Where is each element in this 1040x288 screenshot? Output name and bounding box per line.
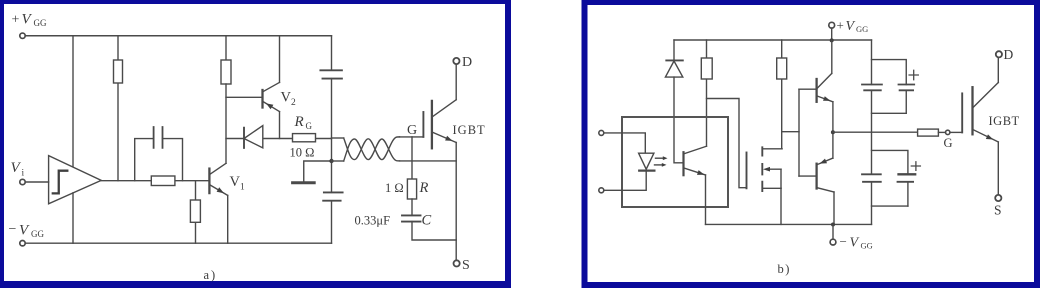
wire input top to LED anode	[604, 133, 646, 153]
resistor (+VGG to op-amp output node)	[114, 36, 123, 181]
svg-text:+: +	[837, 18, 844, 33]
svg-text:C: C	[422, 213, 432, 229]
terminal D (b)	[996, 51, 1002, 57]
svg-text:V: V	[230, 174, 241, 190]
svg-text:GG: GG	[31, 229, 44, 239]
terminal -VGG (b)	[830, 225, 836, 246]
svg-text:−: −	[9, 222, 17, 237]
wire node to twisted pair bottom lead	[332, 160, 344, 162]
wire LED cathode to input bottom	[604, 171, 646, 191]
wire G to IGBT gate	[950, 131, 962, 133]
wire drain node to push-pull bases	[782, 131, 799, 133]
junction bottom rail (b)	[831, 223, 835, 227]
svg-text:D: D	[462, 55, 472, 70]
wire top rail (a)	[25, 35, 331, 37]
wire node to twisted pair top lead	[332, 137, 344, 139]
wire IGBT collector to D	[997, 58, 999, 83]
wire lower emitter to output node	[832, 132, 834, 158]
wire C1 to C2 trunk	[331, 79, 333, 193]
wire gate RC drop	[411, 137, 413, 179]
svg-text:GG: GG	[861, 241, 873, 251]
resistor gate series (b)	[918, 129, 946, 136]
svg-text:a): a)	[204, 268, 218, 282]
svg-text:+: +	[12, 13, 20, 28]
svg-text:i: i	[22, 169, 25, 179]
op-amp step waveform symbol	[53, 171, 68, 194]
op-amp U1	[49, 156, 102, 204]
svg-text:V: V	[850, 236, 860, 251]
capacitor bank top (electrolytic pair)	[862, 85, 914, 91]
wire feedback cap right leg	[163, 139, 183, 181]
label V1	[230, 174, 246, 193]
svg-text:G: G	[944, 136, 953, 150]
junction top rail (b)	[830, 38, 834, 42]
wire top rail corner down to C1	[331, 36, 333, 71]
svg-text:V: V	[846, 19, 856, 34]
resistor (base series)	[151, 176, 175, 186]
light arrow 2	[655, 163, 667, 167]
wire op-amp positive supply drop	[72, 36, 74, 167]
wire MOSFET source to bottom rail	[780, 188, 782, 224]
transistor lower PNP (b)	[799, 158, 834, 192]
wire bottom rail (b)	[706, 223, 872, 225]
wire phototransistor emitter to bottom rail	[705, 175, 707, 224]
wire emitter to S terminal	[455, 143, 457, 261]
svg-text:−: −	[840, 234, 847, 249]
svg-text:R: R	[419, 180, 429, 196]
label +VGG (b)	[837, 18, 869, 35]
label +VGG (a)	[12, 12, 47, 29]
twisted pair wire 1	[344, 137, 400, 160]
wire push-pull bases tie	[798, 89, 800, 176]
transistor V2	[263, 82, 280, 111]
wire cap mid links	[872, 90, 908, 174]
MOSFET	[747, 147, 783, 191]
terminal +VGG (a)	[20, 33, 25, 38]
svg-text:1 Ω: 1 Ω	[385, 181, 404, 195]
plus sign top cap	[909, 70, 918, 79]
wire IGBT emitter to S	[997, 142, 999, 195]
IGBT (a)	[423, 100, 456, 149]
resistor R (1 ohm damping)	[407, 179, 416, 199]
svg-text:IGBT: IGBT	[989, 114, 1020, 128]
svg-text:V: V	[22, 12, 33, 28]
svg-text:b): b)	[778, 262, 791, 276]
terminal -VGG (a)	[20, 241, 25, 246]
label RG	[294, 114, 313, 131]
wire V2 base	[226, 96, 263, 98]
svg-text:R: R	[294, 114, 304, 130]
resistor (+VGG to V1 collector trunk)	[221, 36, 231, 84]
wire cap chain top branch	[872, 60, 907, 85]
transistor upper NPN (b)	[799, 73, 833, 101]
light arrow 1	[656, 156, 668, 160]
wire C2 to bottom rail	[331, 201, 333, 244]
svg-text:S: S	[994, 203, 1002, 218]
svg-text:G: G	[407, 123, 417, 138]
svg-text:D: D	[1004, 47, 1014, 62]
wire upper collector to rail	[831, 40, 833, 73]
phototransistor	[684, 146, 707, 175]
diode (b, reverse protection)	[665, 40, 682, 77]
svg-text:V: V	[281, 90, 292, 106]
wire feedback cap left leg	[135, 139, 154, 181]
wire cap bottom to rail	[872, 182, 908, 225]
LED	[639, 153, 655, 170]
wire diode row (node to RG)	[226, 138, 332, 140]
wire MOSFET gate feed	[707, 99, 747, 188]
svg-text:G: G	[306, 121, 313, 131]
wire V2 collector drop	[279, 36, 281, 83]
svg-text:V: V	[19, 223, 30, 239]
svg-text:0.33μF: 0.33μF	[355, 214, 391, 228]
plus sign bottom cap	[911, 162, 920, 171]
label V2	[281, 90, 297, 109]
resistor (base pulldown to -VGG)	[190, 181, 200, 244]
resistor (rail to phototransistor collector)	[701, 40, 712, 146]
svg-text:2: 2	[291, 98, 296, 108]
capacitor C2 (node to -VGG)	[323, 192, 342, 200]
wire output row (b)	[833, 131, 918, 133]
wire V1 emitter to bottom rail	[227, 195, 229, 243]
capacitor (speed-up, parallel with base resistor)	[154, 127, 163, 148]
wire C to S line	[412, 222, 456, 240]
wire V2 emitter drop	[279, 112, 281, 139]
terminal input top (b)	[599, 130, 604, 135]
capacitor C1 (top, +VGG to node)	[320, 70, 342, 78]
terminal Vi	[20, 179, 25, 184]
wire diode anode to phototransistor base	[674, 77, 684, 163]
resistor (rail to MOSFET drain)	[777, 40, 787, 149]
terminal G (b)	[946, 130, 950, 134]
twisted pair wire 2	[344, 139, 400, 161]
label Vi	[11, 160, 25, 179]
optocoupler box	[622, 117, 728, 207]
output node (b)	[831, 130, 835, 134]
svg-text:S: S	[462, 258, 470, 273]
svg-text:IGBT: IGBT	[453, 123, 486, 137]
wire gate row (a)	[400, 136, 424, 138]
terminal input bottom (b)	[599, 188, 604, 193]
wire input	[25, 181, 48, 183]
wire cap chain top left	[871, 40, 873, 85]
wire bottom rail (a)	[25, 242, 331, 244]
wire top rail (b)	[674, 39, 872, 41]
terminal D (a)	[453, 58, 459, 64]
wire V1 collector trunk	[225, 84, 227, 163]
node (mid reference junction)	[329, 159, 333, 163]
wire lower collector to bottom rail	[833, 192, 835, 225]
svg-text:V: V	[11, 160, 22, 176]
terminal S (a)	[454, 260, 460, 266]
wire op-amp negative supply drop	[72, 193, 74, 243]
capacitor bank bottom (electrolytic pair)	[862, 174, 915, 182]
svg-text:10 Ω: 10 Ω	[290, 146, 315, 160]
wire collector to D terminal	[455, 64, 457, 100]
IGBT (b)	[962, 83, 998, 143]
wire upper emitter to output node	[832, 102, 834, 132]
wire emitter row to S line	[400, 160, 457, 162]
wire R to C	[411, 199, 413, 215]
svg-text:GG: GG	[856, 24, 868, 34]
transistor V1	[209, 163, 227, 195]
label -VGG (b)	[840, 234, 873, 251]
resistor RG	[293, 134, 316, 142]
wire op-amp output row	[101, 180, 209, 182]
ground	[293, 161, 332, 183]
label -VGG (a)	[9, 222, 45, 239]
svg-text:GG: GG	[34, 18, 47, 28]
terminal +VGG (b)	[829, 22, 835, 40]
svg-text:1: 1	[240, 183, 245, 193]
terminal S (b)	[995, 195, 1001, 201]
capacitor C (0.33uF damping)	[402, 215, 421, 221]
diode (catch diode, cathode left)	[244, 126, 263, 148]
